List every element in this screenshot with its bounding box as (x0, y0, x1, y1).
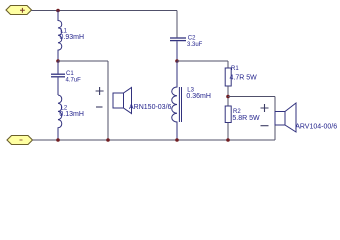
svg-text:4.7uF: 4.7uF (66, 78, 82, 84)
svg-text:5.8R 5W: 5.8R 5W (232, 115, 260, 122)
wire C2 branch top drop (176, 11, 178, 38)
svg-text:0.36mH: 0.36mH (186, 93, 211, 100)
wire tweeter vertical drop (274, 97, 276, 141)
svg-text:C1: C1 (66, 71, 74, 77)
wire R2 bottom lead (227, 123, 229, 141)
junction at L1 top (56, 9, 60, 13)
svg-text:ARV104-00/6: ARV104-00/6 (295, 124, 337, 131)
wire R1 top lead (227, 61, 229, 68)
port - (input negative) (7, 136, 33, 145)
junction bottom rail at L3 (175, 138, 179, 142)
junction bottom rail at L2 (56, 138, 60, 142)
svg-text:3.3uF: 3.3uF (187, 42, 203, 48)
wire from node to woofer branch (58, 60, 108, 62)
svg-text:0.93mH: 0.93mH (60, 34, 85, 41)
junction at C2 bottom / mid node (175, 59, 179, 63)
svg-text:C2: C2 (188, 36, 196, 42)
inductor L1 (58, 11, 62, 62)
wire R1/R2 node to tweeter (228, 96, 275, 98)
speaker LS2 plus mark (261, 104, 269, 112)
wire bottom rail (33, 139, 276, 141)
speaker LS2 minus mark (261, 125, 269, 127)
inductor L3 with core (172, 61, 182, 140)
resistor R2 (225, 106, 231, 123)
speaker LS1 minus mark (96, 106, 103, 108)
capacitor C1 (51, 61, 65, 95)
junction R1/R2 node (226, 95, 230, 99)
junction bottom rail at woofer (106, 138, 110, 142)
junction at L1 bottom / C1 node (56, 59, 60, 63)
capacitor C2 (170, 38, 186, 61)
port + (input positive) (6, 6, 32, 15)
svg-text:4.7R 5W: 4.7R 5W (230, 75, 258, 82)
junction bottom rail at R2 (226, 138, 230, 142)
svg-text:ARN150-03/6: ARN150-03/6 (129, 104, 172, 111)
resistor R1 (225, 68, 231, 86)
svg-text:0.13mH: 0.13mH (59, 111, 84, 118)
wire top rail from port + to C2 branch (32, 10, 178, 12)
speaker LS1 plus mark (96, 87, 104, 95)
inductor L2 (58, 95, 62, 140)
speaker LS2 (tweeter) (275, 103, 296, 132)
wire R1 bottom to R2 top (227, 86, 229, 106)
svg-text:R1: R1 (231, 66, 239, 72)
wire woofer vertical drop (107, 61, 109, 140)
speaker LS1 (woofer) (113, 88, 132, 114)
wire mid node to R1 (177, 60, 228, 62)
